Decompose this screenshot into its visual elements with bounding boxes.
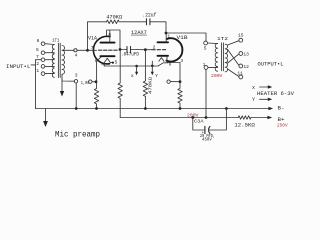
T2 secondary cross wires [228, 41, 239, 77]
svg-text:x: x [252, 85, 255, 91]
svg-text:3: 3 [75, 73, 78, 79]
svg-text:13: 13 [243, 51, 249, 57]
terminal circle 11 [239, 75, 243, 79]
svg-text:470KΩ: 470KΩ [147, 77, 153, 94]
resistor 12.5K [238, 116, 251, 119]
svg-text:7: 7 [36, 54, 39, 60]
svg-text:4: 4 [75, 52, 78, 58]
terminal circle pin4 [74, 49, 77, 52]
svg-text:470KΩ: 470KΩ [106, 14, 123, 20]
T2 primary return lead [205, 69, 207, 117]
node grid V1B junction [144, 48, 147, 51]
terminal circle 12 [239, 64, 243, 68]
T1 primary winding [52, 45, 54, 78]
svg-text:B-: B- [278, 106, 285, 112]
svg-text:1T1: 1T1 [52, 38, 59, 44]
capacitor .047uFD coupling [120, 49, 152, 51]
V1A heater [104, 58, 112, 66]
node plate/cap junction [119, 48, 122, 51]
wire feedback top left segment [88, 22, 107, 51]
heater line [104, 61, 168, 66]
resistor 470K (feedback) [107, 20, 120, 24]
transformer T2 left pins [204, 41, 208, 45]
svg-text:12: 12 [243, 64, 249, 70]
wire top middle [120, 21, 147, 23]
svg-text:11: 11 [237, 71, 243, 77]
arrow heater X [260, 86, 270, 88]
T1 terminal stubs [45, 44, 54, 74]
V1B cathode lead [167, 56, 180, 81]
arrow heater Y [260, 98, 270, 100]
terminal circle 15 [239, 38, 243, 42]
wire test point to cathode resistor [170, 81, 180, 83]
capacitor C3A electrolytic [193, 109, 227, 131]
svg-text:B+: B+ [278, 117, 285, 123]
node plate V1B [165, 32, 168, 35]
terminal circle link A [74, 80, 77, 83]
svg-text:12.5KΩ: 12.5KΩ [234, 123, 254, 129]
T2 primary winding [215, 44, 217, 72]
svg-text:4: 4 [101, 62, 104, 68]
wire top right + drop to plate node [150, 22, 166, 33]
heater Y arrow + stub [151, 61, 153, 72]
resistor cathode V1B [178, 82, 182, 109]
node C3A plus tap [191, 116, 194, 119]
wire V1A grid from T1 [77, 49, 97, 51]
svg-text:Y: Y [155, 73, 158, 79]
svg-text:C3A: C3A [194, 118, 204, 124]
node bus junctions [75, 107, 78, 110]
node cathode junction V1A [95, 80, 98, 83]
V1A cathode bar [101, 55, 115, 57]
svg-text:5: 5 [115, 60, 118, 66]
arrow B+ [267, 116, 272, 120]
svg-text:1T2: 1T2 [217, 36, 228, 42]
V1A plate lead + pin 6 box [107, 30, 121, 50]
svg-text:3: 3 [180, 58, 183, 64]
svg-text:5: 5 [204, 45, 207, 51]
svg-text:5: 5 [36, 47, 39, 53]
svg-text:2: 2 [153, 44, 156, 50]
svg-text:9: 9 [169, 62, 172, 68]
svg-text:V1B: V1B [177, 35, 188, 41]
wire plate V1B to T2 pin5 [166, 33, 206, 41]
V1B heater [159, 58, 164, 62]
T1 shield ground lead [61, 78, 63, 91]
svg-text:x: x [131, 74, 134, 79]
node cathode resistor top [179, 80, 182, 83]
svg-text:1,00: 1,00 [81, 82, 90, 86]
resistor cathode V1A [94, 82, 98, 109]
node T2 primary return [205, 116, 208, 119]
svg-text:V1A: V1A [88, 36, 97, 42]
svg-text:200V: 200V [211, 73, 223, 79]
input bracket [31, 60, 41, 109]
svg-text:6: 6 [108, 32, 111, 38]
ground bus [36, 108, 270, 110]
V1A plate bar [101, 42, 115, 44]
wire T1 pin3 [62, 74, 74, 81]
svg-text:OUTPUT•L: OUTPUT•L [258, 62, 284, 68]
T2 core [222, 43, 224, 71]
capacitor .22uf [147, 19, 150, 25]
svg-text:Y: Y [252, 97, 255, 103]
V1B plate bar [158, 41, 169, 43]
T2 pin1 stub [208, 66, 218, 68]
wire link B to cathode node [92, 81, 96, 83]
svg-text:.22uf: .22uf [142, 13, 156, 19]
svg-text:6: 6 [37, 38, 40, 44]
terminal circle link B [89, 80, 92, 83]
V1A grid dashes [99, 49, 118, 51]
svg-text:1: 1 [167, 33, 170, 39]
ground arrow T1 [60, 91, 64, 97]
svg-text:15: 15 [238, 33, 244, 39]
terminal circle cathode test point [167, 80, 170, 83]
svg-text:450V: 450V [202, 137, 212, 143]
op V1B envelope [166, 38, 182, 61]
svg-text:7: 7 [91, 45, 94, 51]
T2 pin5 stub [208, 42, 218, 45]
node feedback-grid junction [86, 49, 89, 52]
V1B cathode bar [158, 55, 169, 57]
T1 core [58, 43, 60, 77]
svg-text:250V: 250V [277, 122, 288, 128]
svg-text:12AX7: 12AX7 [131, 30, 147, 36]
node heater Y tap [151, 65, 154, 68]
resistor plate load V1A [118, 50, 122, 118]
svg-text:1: 1 [36, 68, 39, 74]
svg-text:HEATER 6-3V: HEATER 6-3V [257, 90, 295, 97]
heater X arrow [136, 66, 138, 72]
resistor grid V1B 470K [143, 50, 147, 109]
wire link A to ground bus [75, 83, 77, 109]
svg-text:8: 8 [95, 58, 98, 64]
svg-text:200V: 200V [187, 113, 199, 119]
wire B+ line [120, 117, 268, 119]
svg-text:1: 1 [203, 62, 206, 68]
V1B grid dashes [152, 49, 166, 51]
svg-text:2: 2 [36, 61, 39, 67]
T2 secondary winding [225, 44, 227, 72]
arrow B- [268, 107, 273, 111]
ground arrow bus [45, 109, 47, 122]
V1B plate lead [165, 33, 167, 42]
svg-text:.047uFD: .047uFD [121, 52, 139, 58]
V1A cathode lead [97, 57, 101, 82]
wire T1 pin4 to grid [63, 49, 74, 51]
op V1A envelope [93, 36, 110, 64]
svg-text:Mic preamp: Mic preamp [55, 130, 100, 140]
svg-text:INPUT•L: INPUT•L [6, 63, 31, 70]
terminal circle 13 [239, 52, 243, 56]
transformer T1 terminals [41, 42, 45, 46]
node heater X tap [135, 65, 138, 68]
T1 secondary winding [62, 46, 65, 75]
